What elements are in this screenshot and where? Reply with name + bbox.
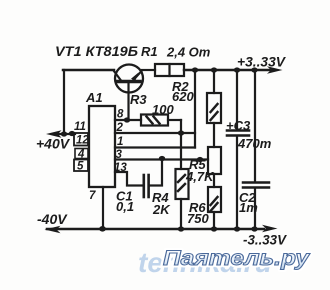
- svg-text:Паятель.ру: Паятель.ру: [163, 247, 311, 270]
- svg-text:2K: 2K: [152, 202, 171, 217]
- svg-text:1m: 1m: [239, 200, 258, 215]
- svg-text:2: 2: [116, 122, 124, 134]
- svg-text:+3..33V: +3..33V: [237, 54, 287, 70]
- svg-text:470m: 470m: [237, 136, 272, 151]
- svg-text:12: 12: [76, 135, 89, 147]
- svg-text:-40V: -40V: [37, 211, 68, 227]
- svg-text:R1: R1: [141, 44, 158, 59]
- svg-text:3: 3: [116, 149, 123, 161]
- svg-text:1: 1: [117, 136, 123, 148]
- svg-text:+C3: +C3: [226, 118, 251, 133]
- svg-text:4,7K: 4,7K: [185, 169, 215, 184]
- svg-text:100: 100: [152, 102, 174, 117]
- svg-text:620: 620: [172, 89, 194, 104]
- svg-text:13: 13: [114, 162, 127, 174]
- svg-text:2,4 Om: 2,4 Om: [166, 45, 211, 60]
- svg-text:-3..33V: -3..33V: [243, 232, 288, 248]
- svg-text:0,1: 0,1: [116, 199, 134, 214]
- svg-text:8: 8: [117, 109, 124, 121]
- svg-text:5: 5: [77, 161, 84, 173]
- svg-text:VT1 КТ819Б: VT1 КТ819Б: [55, 43, 138, 59]
- svg-text:7: 7: [89, 190, 96, 202]
- svg-text:+40V: +40V: [36, 136, 71, 152]
- svg-text:11: 11: [74, 121, 86, 133]
- svg-text:750: 750: [187, 211, 209, 226]
- svg-text:A1: A1: [85, 90, 103, 105]
- svg-text:R3: R3: [130, 92, 147, 107]
- svg-text:4: 4: [77, 149, 85, 161]
